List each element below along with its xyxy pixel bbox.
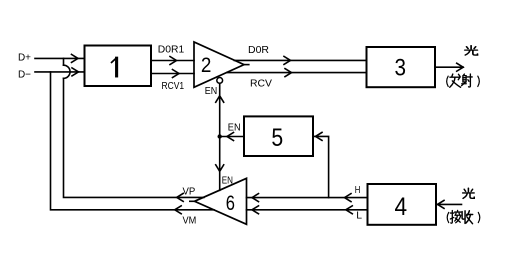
char jie xyxy=(450,210,461,223)
char fa xyxy=(450,74,461,87)
arrowhead on RCV1 xyxy=(173,70,180,78)
arrowhead on RCV xyxy=(285,69,292,77)
svg-text:5: 5 xyxy=(271,124,283,152)
svg-text:RCV: RCV xyxy=(250,77,272,89)
wire D+ to block 1 xyxy=(35,57,85,59)
svg-text:2: 2 xyxy=(201,54,212,77)
svg-text:L: L xyxy=(356,209,362,221)
svg-text:D+: D+ xyxy=(18,51,31,63)
arrowhead on D0R xyxy=(284,56,291,64)
label guang (light) transmit xyxy=(465,46,478,55)
wire L (block 4 to receiver 6) xyxy=(247,209,368,211)
svg-text:6: 6 xyxy=(226,192,235,215)
wire RCV1 (block 1 to buffer 2) xyxy=(151,73,194,75)
label (fa she) transmit note xyxy=(447,74,480,87)
fullwidth open paren xyxy=(447,76,449,86)
char shou xyxy=(462,211,473,224)
wire block 5 right input from H net xyxy=(313,136,329,197)
arrowhead up on EN net xyxy=(216,96,224,103)
fullwidth close paren xyxy=(478,212,480,222)
arrowhead on VM wire pointing left xyxy=(175,206,182,214)
block 5 xyxy=(244,116,313,156)
svg-text:D0R1: D0R1 xyxy=(158,44,185,56)
svg-text:RCV1: RCV1 xyxy=(162,80,185,92)
wire D+ branch down (vertical B, upper segment) xyxy=(63,58,65,65)
label guang (light) receive xyxy=(463,188,475,198)
arrowhead on L near block 4 xyxy=(346,206,353,214)
arrowhead down on EN net xyxy=(216,165,224,172)
arrowhead optical output xyxy=(457,63,464,71)
svg-text:VP: VP xyxy=(183,186,196,198)
svg-text:D0R: D0R xyxy=(248,44,269,56)
svg-text:EN: EN xyxy=(222,174,233,186)
arrowhead on D0R1 xyxy=(170,57,177,65)
wire D- branch down to VM (vertical A, corner, to triangle 6 lower edge) xyxy=(51,72,214,210)
wire RCV (buffer 2 to block 3) xyxy=(227,72,367,74)
junction dot EN net xyxy=(218,134,222,138)
block 4 xyxy=(368,184,437,225)
block 3 xyxy=(367,47,436,87)
buffer 2 output pin stub xyxy=(244,64,249,66)
arrowhead into block 5 right xyxy=(316,132,323,140)
label (jie shou) receive note xyxy=(447,210,480,223)
arrowhead on D+ wire xyxy=(72,54,79,62)
wire H (block 4 to receiver 6) xyxy=(247,197,368,199)
wire D+ branch down to VP (below hop, corner, to triangle 6 upper edge) xyxy=(64,78,204,197)
wire D0R1 (block 1 to buffer 2) xyxy=(151,60,194,62)
buffer 2 (triangle) xyxy=(194,42,244,87)
wire D- to block 1 xyxy=(35,71,85,73)
svg-text:4: 4 xyxy=(395,193,408,221)
arrowhead optical input xyxy=(438,200,445,208)
wire block 4 optical input xyxy=(438,203,462,205)
svg-text:3: 3 xyxy=(395,55,407,82)
svg-text:H: H xyxy=(355,184,361,196)
arrowhead on H near triangle xyxy=(252,194,259,202)
arrowhead on H near block 4 xyxy=(345,194,352,202)
svg-text:VM: VM xyxy=(183,214,197,226)
arrowhead on L near triangle xyxy=(252,206,259,214)
svg-text:EN: EN xyxy=(205,85,217,97)
block 1 xyxy=(85,46,152,87)
enable bubble on buffer 2 xyxy=(217,78,223,84)
fullwidth open paren xyxy=(447,212,449,222)
wire hop arc over D- line xyxy=(64,65,71,78)
arrowhead on VP wire pointing left xyxy=(177,193,184,201)
arrowhead on EN wire pointing left xyxy=(227,133,234,141)
arrowhead on D- wire xyxy=(72,68,79,76)
label 1 xyxy=(115,58,118,76)
wire block 3 optical output xyxy=(435,66,463,68)
receiver 6 output pin stub xyxy=(190,200,195,202)
wire D0R (buffer 2 to block 3) xyxy=(234,59,366,61)
wire EN (block 5 to EN net) xyxy=(220,136,244,138)
receiver 6 (triangle) xyxy=(195,178,247,224)
char she xyxy=(462,74,473,87)
svg-text:D−: D− xyxy=(18,68,31,80)
EN net vertical (bubble to triangle 6) xyxy=(219,83,221,190)
fullwidth close paren xyxy=(478,76,480,86)
svg-text:EN: EN xyxy=(228,121,241,133)
